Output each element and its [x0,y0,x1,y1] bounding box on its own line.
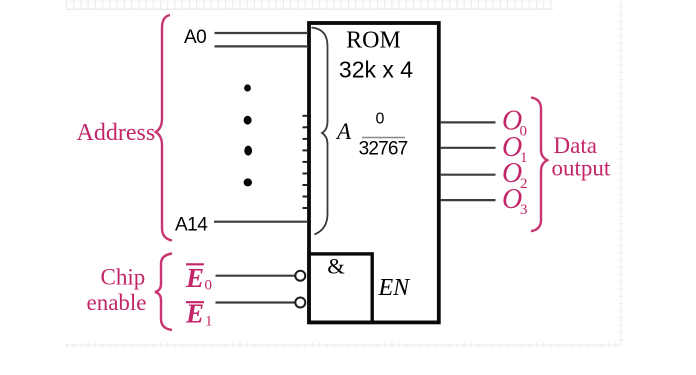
svg-text:0: 0 [205,278,213,294]
svg-text:Address: Address [77,120,156,146]
svg-text:A: A [335,119,352,144]
svg-text:1: 1 [520,150,528,166]
svg-text:2: 2 [520,176,528,192]
svg-text:E: E [185,263,204,293]
svg-text:32767: 32767 [359,138,408,159]
svg-text:3: 3 [520,202,528,218]
svg-text:Data: Data [554,133,597,158]
svg-text:A0: A0 [184,27,206,48]
svg-text:output: output [552,156,611,181]
svg-text:enable: enable [87,290,147,315]
svg-text:A14: A14 [175,215,208,236]
svg-text:0: 0 [520,124,528,140]
svg-text:1: 1 [205,314,213,330]
svg-text:32k x 4: 32k x 4 [339,57,413,83]
svg-text:&: & [327,254,345,279]
svg-text:Chip: Chip [101,265,146,290]
svg-text:0: 0 [376,111,385,128]
svg-text:EN: EN [378,275,412,301]
svg-text:ROM: ROM [346,28,401,54]
